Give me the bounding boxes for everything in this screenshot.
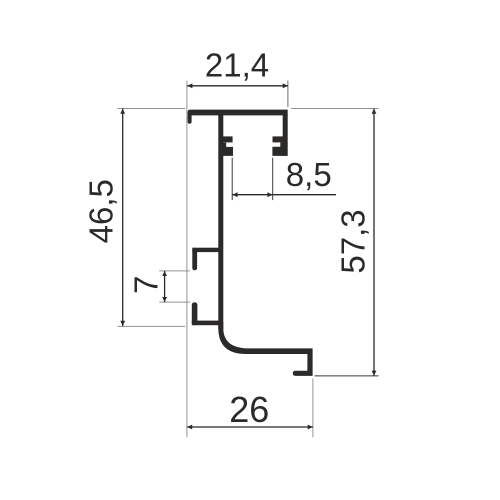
dimension 26 line	[187, 426, 313, 428]
dimension 57,3 top arrow	[372, 109, 377, 114]
dimension 57,3 bottom arrow	[372, 371, 377, 376]
svg-text:21,4: 21,4	[205, 47, 269, 84]
svg-text:26: 26	[229, 389, 269, 430]
stem upper tooth	[222, 136, 233, 142]
dimension 8,5 right extension line	[272, 158, 274, 200]
right wall lower block	[272, 142, 284, 156]
svg-text:57,3: 57,3	[335, 209, 372, 273]
dimension 26 left arrow	[187, 425, 192, 430]
long left extension line (21,4 and 26)	[186, 81, 188, 438]
svg-text:7: 7	[127, 276, 164, 294]
profile bottom curved foot with end hook	[218, 322, 312, 376]
dimension 21,4 right extension line	[287, 81, 289, 107]
dimension 8,5 line	[232, 194, 336, 196]
profile central stem	[218, 115, 223, 329]
right wall upper tooth	[273, 136, 285, 142]
dimension 57,3 bottom extension line	[315, 375, 379, 377]
dimension 7 line	[164, 271, 166, 302]
dimension 21,4 right arrow	[283, 83, 288, 88]
dimension 46,5 top arrow	[120, 109, 125, 114]
dimension 46,5 line	[122, 109, 124, 327]
dimension 26 right arrow	[308, 425, 313, 430]
stem lower block	[222, 143, 233, 156]
dimension 8,5 right arrow	[267, 192, 272, 197]
profile top flange with left lip hook	[188, 110, 288, 124]
lower left hook stub	[192, 302, 198, 325]
dimension 46,5 bottom arrow	[120, 321, 125, 326]
dimension 8,5 left arrow	[232, 192, 237, 197]
dimension 46,5 top extension line	[118, 108, 186, 110]
dimension 7 bottom extension line	[159, 301, 190, 303]
lower left hook arm	[192, 321, 221, 326]
svg-text:46,5: 46,5	[83, 179, 120, 243]
dimension 8,5 left extension line	[231, 158, 233, 200]
dimension 21,4 left arrow	[187, 83, 192, 88]
upper left hook stub	[192, 248, 197, 271]
dimension 46,5 bottom extension line	[118, 325, 186, 327]
upper left hook arm	[192, 248, 220, 252]
dimension 57,3 top extension line	[291, 108, 379, 110]
dimension 7 top arrow	[162, 271, 167, 276]
dimension 7 top extension line	[159, 270, 190, 272]
svg-text:8,5: 8,5	[286, 156, 332, 193]
dimension 26 right extension line	[312, 379, 314, 438]
profile right wall	[283, 115, 288, 156]
dimension 57,3 line	[373, 109, 375, 376]
dimension 21,4 line	[187, 85, 288, 87]
dimension 7 bottom arrow	[162, 297, 167, 302]
